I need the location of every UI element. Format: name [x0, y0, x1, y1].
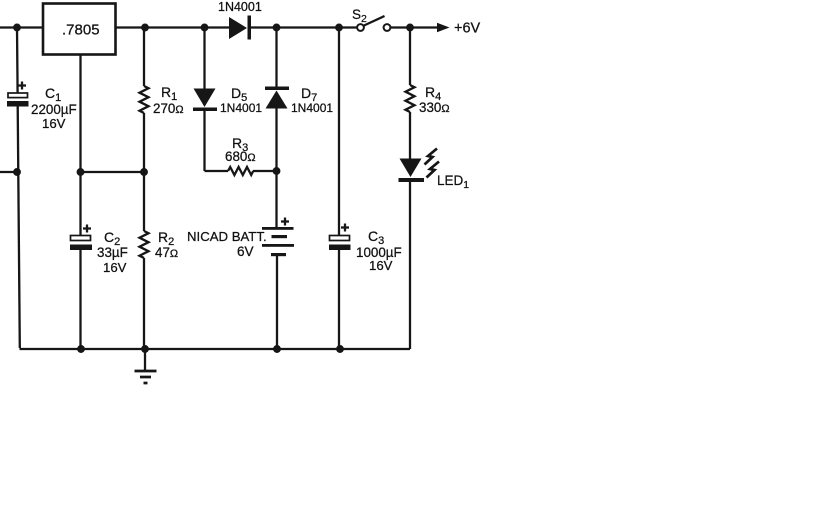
svg-text:330Ω: 330Ω — [419, 100, 450, 115]
svg-text:.7805: .7805 — [62, 22, 100, 39]
svg-text:680Ω: 680Ω — [225, 149, 256, 164]
svg-text:270Ω: 270Ω — [153, 101, 184, 116]
svg-text:16V: 16V — [103, 260, 127, 275]
svg-text:2200µF: 2200µF — [31, 102, 77, 117]
svg-text:16V: 16V — [369, 258, 393, 273]
svg-text:16V: 16V — [42, 116, 66, 131]
svg-text:33µF: 33µF — [97, 245, 128, 260]
svg-text:+6V: +6V — [454, 21, 481, 37]
svg-text:1N4001: 1N4001 — [291, 101, 333, 115]
svg-text:6V: 6V — [237, 244, 254, 259]
svg-text:1N4001: 1N4001 — [220, 101, 262, 115]
svg-text:NICAD BATT.: NICAD BATT. — [187, 229, 267, 244]
svg-text:1N4001: 1N4001 — [218, 0, 262, 14]
svg-text:47Ω: 47Ω — [155, 245, 178, 260]
